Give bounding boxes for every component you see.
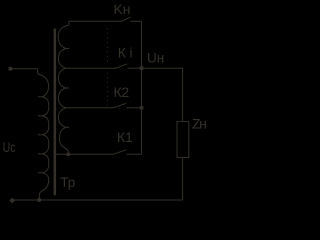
secondary winding boundary stub 3 (66, 126, 69, 128)
svg-text:К1: К1 (117, 129, 133, 145)
switch Kn: blade (122, 17, 130, 21)
switch K2: fixed contact line to bus (126, 107, 141, 109)
svg-text:Uс: Uс (3, 140, 16, 156)
secondary winding boundary stub 1 (66, 48, 69, 50)
dotted continuation line between Kn and Ki (106, 28, 108, 65)
svg-text:Zн: Zн (192, 115, 207, 131)
switch Ki: fixed contact line to bus (128, 67, 142, 69)
svg-text:Кi: Кi (118, 44, 133, 60)
secondary winding boundary stub 2 (66, 87, 69, 89)
wire: Un node to load (142, 68, 183, 121)
secondary winding: top lead and coil turns (58, 21, 69, 152)
switch Ki: blade (116, 64, 127, 68)
dotted continuation line between Ki and K2 (106, 73, 108, 106)
junction dot: primary bottom to return wire (37, 198, 41, 202)
svg-text:К2: К2 (114, 84, 130, 100)
junction dot: Ki output on bus (Un node) (139, 66, 143, 70)
terminal: Uc input top-left square (9, 67, 13, 71)
primary winding boundary stub 2 (38, 115, 42, 117)
load Zn rectangle (177, 122, 189, 158)
switch K1: blade (114, 150, 127, 154)
wire: output bus vertical (141, 21, 143, 154)
primary winding boundary stub 4 (38, 153, 42, 155)
junction dot: secondary winding end on K1 tap line (66, 152, 70, 156)
primary winding boundary stub 1 (38, 96, 42, 98)
primary winding Tp left coil (38, 74, 49, 200)
switch K1: fixed contact line to bus (126, 153, 141, 155)
svg-text:Kн: Kн (113, 1, 130, 17)
wire: top-left lead vertical into primary (37, 69, 39, 74)
switch K2: input lead from winding tap (66, 107, 114, 109)
switch K2: blade (114, 103, 127, 107)
svg-text:Uн: Uн (147, 51, 164, 66)
junction dot: K2 output on bus (139, 106, 143, 110)
wire: load bottom to return (182, 158, 184, 201)
primary winding boundary stub 5 (38, 172, 42, 174)
switch Ki: input lead from winding tap (66, 67, 116, 69)
switch Kn: fixed contact line to bus (131, 20, 142, 22)
primary winding boundary stub 3 (38, 134, 42, 136)
core: transformer core bar (54, 29, 57, 196)
terminal: bottom-left diamond (9, 198, 15, 204)
wire: top-left lead horizontal (12, 68, 37, 70)
switch K1: input lead from winding end (56, 153, 113, 155)
switch Kn: input lead (69, 20, 122, 22)
wire: bottom return wire (12, 199, 182, 201)
svg-text:Тр: Тр (60, 174, 75, 190)
